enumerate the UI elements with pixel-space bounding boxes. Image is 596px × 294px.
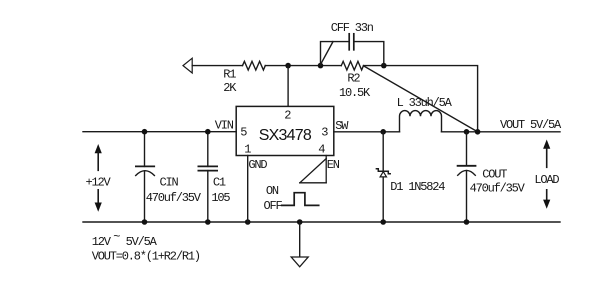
diode D1 [376,132,390,222]
capacitor COUT [458,132,476,222]
wire R1 to R2 [265,65,341,67]
wire inductor to VOUT [442,131,561,133]
svg-text:5: 5 [240,126,247,140]
svg-text:2: 2 [284,109,291,123]
junction C1 top [205,129,211,135]
label VOUT 5V/5A [500,118,562,132]
pin 2 [284,109,291,123]
svg-text:470uf/35V: 470uf/35V [146,191,202,205]
svg-text:SX3478: SX3478 [259,127,312,144]
capacitor CIN [136,132,155,222]
pin 5 [240,126,247,140]
svg-text:GND: GND [248,158,267,172]
svg-text:1: 1 [244,143,251,157]
resistor R1 [243,61,266,70]
wire GND pin 1 [247,156,249,223]
EN pin ramp symbol [300,156,326,183]
svg-text:10.5K: 10.5K [339,86,371,100]
junction R2 right node [381,63,387,69]
label COUT 470uf/35V [470,167,526,195]
label SX3478 [259,127,312,144]
junction GND pin bottom [245,219,251,225]
annotation +12V arrow [95,144,102,212]
svg-text:EN: EN [327,158,340,172]
svg-text:105: 105 [211,191,230,205]
svg-text:L 33uh/5A: L 33uh/5A [397,96,453,110]
wire SW pin3 to inductor [334,131,400,133]
wire CFF left diagonal [321,42,334,65]
svg-text:CIN: CIN [160,175,179,189]
pin 4 [318,143,325,157]
svg-text:+12V: +12V [86,175,112,189]
label ON [266,184,279,198]
svg-text:ON: ON [266,184,279,198]
svg-text:LOAD: LOAD [534,173,559,187]
junction pin2 node on FB line [285,63,291,69]
annotation LOAD arrow [543,140,550,209]
resistor R2 [341,61,363,70]
junction R2 left node [318,63,324,69]
capacitor C1 [198,132,217,222]
wire VIN rail top left [83,131,236,133]
junction COUT bottom [464,219,470,225]
inductor L [400,111,442,132]
junction ground symbol node [297,219,303,225]
label C1 105 [211,175,230,204]
label +12V [86,175,112,189]
EN on/off pulse waveform [282,193,319,206]
svg-text:R2: R2 [347,71,360,85]
label VIN [215,118,234,132]
svg-text:3: 3 [321,126,328,140]
label VOUT formula [92,249,200,263]
label 12V ~ 5V/5A [92,230,158,249]
label R2 10.5K [339,71,371,100]
wire feedback diagonal from R2 to VOUT node [364,66,478,132]
wire FB terminal to R1 [192,65,242,67]
junction D1 bottom [380,219,386,225]
junction COUT top node [464,129,470,135]
junction CIN top [142,129,148,135]
wire R2 right to corner and down to VOUT node [364,66,478,132]
junction D1 top node [380,129,386,135]
junction VOUT feedback node [475,129,481,135]
label SW [335,119,349,133]
svg-text:2K: 2K [223,81,237,95]
node FB feedback terminal arrow [183,58,192,73]
junction CIN bottom [142,219,148,225]
label R1 2K [223,68,237,96]
label CIN 470uf/35V [146,175,202,204]
svg-text:470uf/35V: 470uf/35V [470,181,526,195]
svg-text:5V/5A: 5V/5A [126,235,158,249]
label OFF [264,199,283,213]
label LOAD [534,173,559,187]
wire bottom ground rail [83,221,560,223]
junction C1 bottom [205,219,211,225]
label L 33uh/5A [397,96,453,110]
wire pin 2 vertical [287,66,289,107]
pin 3 [321,126,328,140]
svg-text:CFF 33n: CFF 33n [331,21,374,35]
capacitor CFF [321,34,384,66]
svg-text:SW: SW [335,119,349,133]
svg-text:COUT: COUT [482,167,507,181]
svg-text:~: ~ [113,230,120,244]
label CFF 33n [331,21,374,35]
label EN [327,158,340,172]
pin 1 [244,143,251,157]
label D1 1N5824 [390,180,445,194]
IC U1 SX3478 [236,106,334,155]
svg-text:OFF: OFF [264,199,283,213]
svg-text:C1: C1 [213,175,226,189]
svg-text:4: 4 [318,143,325,157]
svg-text:VIN: VIN [215,118,234,132]
svg-text:D1 1N5824: D1 1N5824 [390,180,445,194]
svg-text:R1: R1 [223,68,236,82]
label GND [248,158,267,172]
ground [291,222,308,267]
svg-text:VOUT=0.8*(1+R2/R1): VOUT=0.8*(1+R2/R1) [92,249,200,263]
svg-text:12V: 12V [92,235,112,249]
svg-text:VOUT 5V/5A: VOUT 5V/5A [500,118,562,132]
